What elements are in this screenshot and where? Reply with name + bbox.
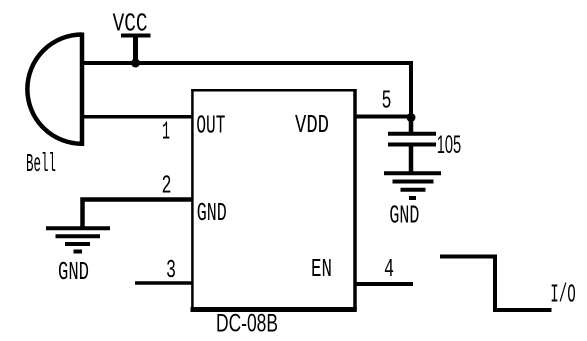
svg-text:GND: GND: [389, 201, 419, 231]
capacitor C1 bottom plate: [388, 143, 436, 147]
IC U1 box right edge: [353, 89, 357, 311]
svg-text:VDD: VDD: [295, 110, 329, 140]
bell LS1 flat edge: [80, 33, 85, 147]
I/O signal waveform: [440, 257, 552, 311]
ground symbol left bar 1: [46, 226, 110, 230]
svg-text:Bell: Bell: [26, 149, 56, 179]
svg-text:5: 5: [382, 86, 392, 116]
bell LS1 arc body: [27, 35, 82, 144]
wire pin 3 stub: [135, 281, 192, 285]
ground symbol left bar 2: [56, 234, 101, 238]
power symbol VCC bar: [121, 34, 151, 38]
svg-text:VCC: VCC: [113, 9, 148, 39]
wire pin 1 OUT to bell: [80, 115, 192, 119]
svg-text:DC-08B: DC-08B: [216, 310, 278, 338]
svg-text:4: 4: [384, 254, 394, 284]
wire pin 2 GND: [83, 200, 193, 229]
ground symbol left bar 4: [74, 250, 83, 254]
svg-text:1: 1: [162, 116, 170, 146]
svg-text:GND: GND: [58, 257, 89, 287]
wire junction to capacitor C1: [409, 118, 414, 134]
svg-text:OUT: OUT: [196, 111, 225, 141]
svg-text:I/O: I/O: [550, 280, 576, 310]
wire pin 5 VDD: [355, 115, 411, 119]
ground symbol right bar 3: [401, 188, 426, 192]
svg-text:2: 2: [162, 171, 172, 201]
wire capacitor C1 to ground: [409, 146, 414, 173]
junction dot at VCC tap: [131, 59, 140, 68]
IC U1 box top edge: [191, 89, 357, 92]
wire pin 4 EN: [355, 282, 413, 286]
svg-text:EN: EN: [311, 254, 332, 284]
svg-text:GND: GND: [197, 198, 227, 228]
ground symbol right bar 2: [393, 180, 434, 184]
IC U1 box left edge: [191, 89, 194, 310]
ground symbol left bar 3: [65, 242, 90, 246]
svg-text:105: 105: [437, 131, 462, 159]
capacitor C1 top plate: [388, 132, 436, 136]
power symbol VCC stem: [133, 36, 138, 64]
svg-text:3: 3: [166, 255, 176, 285]
ground symbol right bar 1: [384, 171, 441, 175]
IC U1 box bottom edge: [191, 307, 357, 312]
junction dot VDD node: [407, 113, 416, 122]
wire bell top to VDD net (top rail): [80, 63, 411, 118]
ground symbol right bar 4: [409, 196, 416, 200]
